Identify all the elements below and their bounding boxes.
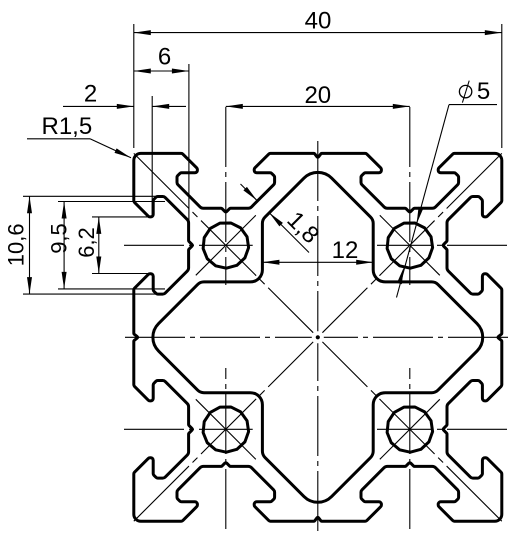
- dimension 40 top: [133, 24, 135, 148]
- dimension 1,8: [241, 184, 258, 201]
- cross diagonal through hole 1: [196, 215, 256, 275]
- dimension 6,2: [92, 216, 153, 218]
- diagonal centerline TL-BR: [134, 153, 313, 332]
- centerline horizontal profile axis: [125, 336, 312, 338]
- diagonal centerline TR-BL: [322, 153, 501, 332]
- svg-text:2: 2: [84, 80, 97, 107]
- cross diagonal through hole 2: [380, 215, 440, 275]
- dimension 12: [262, 261, 373, 263]
- dimension 9,5: [58, 201, 165, 203]
- centerline horizontal top-right hole: [377, 244, 507, 246]
- svg-text:R1,5: R1,5: [42, 113, 93, 140]
- centerline horizontal bottom-left hole: [124, 428, 253, 430]
- cross diagonal through hole 3: [196, 399, 256, 459]
- svg-text:5: 5: [477, 78, 490, 105]
- center point mark: [316, 335, 320, 339]
- centerline vertical bottom-right hole: [409, 368, 411, 529]
- central cavity: [153, 172, 483, 502]
- dimension 20: [226, 105, 410, 107]
- centerline horizontal bottom-right hole: [377, 428, 507, 430]
- diameter label 5: [449, 104, 497, 106]
- profile outline: [134, 153, 502, 521]
- centerline vertical profile axis: [317, 141, 319, 331]
- svg-text:20: 20: [304, 82, 331, 109]
- svg-text:9,5: 9,5: [46, 223, 71, 254]
- centerline horizontal top-left hole: [124, 244, 253, 246]
- svg-text:10,6: 10,6: [4, 223, 29, 266]
- hole 2 (dia 5): [387, 223, 432, 268]
- hole 1 (dia 5): [203, 223, 248, 268]
- dimension 2: [151, 96, 153, 217]
- centerline vertical top-left hole: [225, 107, 227, 285]
- svg-text:6,2: 6,2: [74, 227, 99, 258]
- dimension 10,6: [23, 195, 164, 197]
- hole 4 (dia 5): [387, 407, 432, 452]
- svg-text:12: 12: [332, 237, 359, 264]
- cross diagonal through hole 4: [380, 399, 440, 459]
- svg-text:40: 40: [305, 7, 332, 34]
- dimension 6: [188, 64, 190, 222]
- radius label R1,5: [27, 138, 90, 140]
- centerline vertical top-right hole: [409, 107, 411, 285]
- svg-text:6: 6: [158, 44, 171, 71]
- centerline vertical bottom-left hole: [225, 368, 227, 529]
- hole 3 (dia 5): [203, 407, 248, 452]
